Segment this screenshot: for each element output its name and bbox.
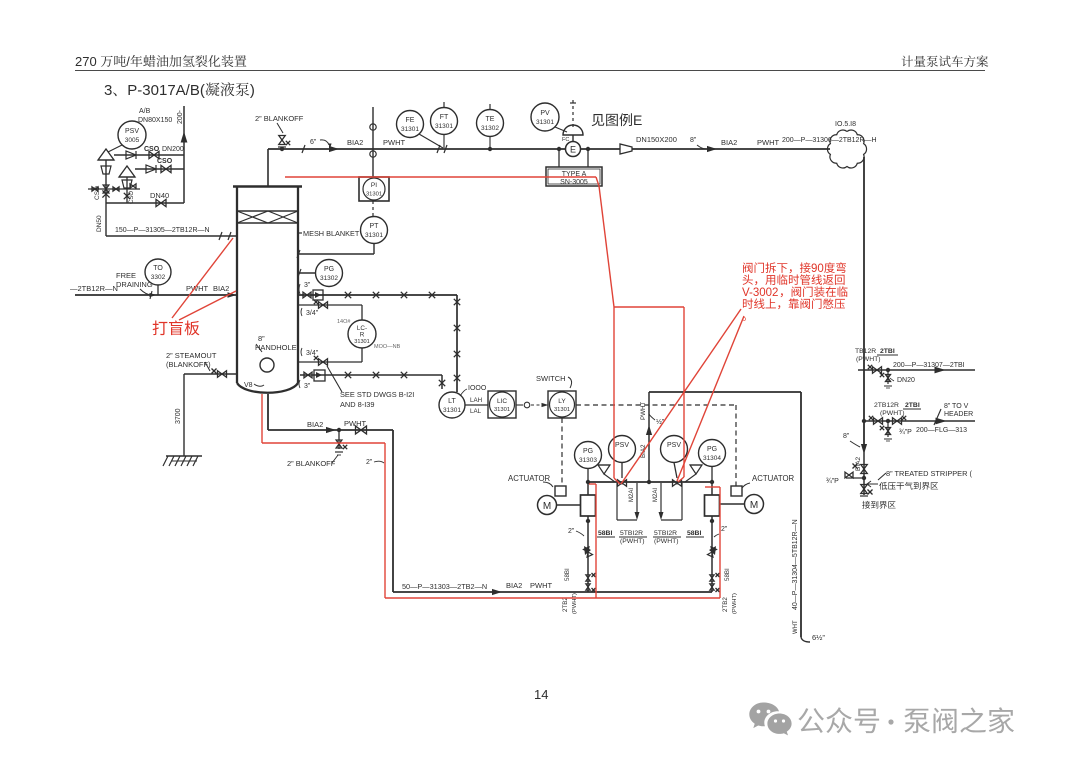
svg-text:31301: 31301	[443, 407, 461, 414]
svg-text:TE: TE	[486, 116, 495, 123]
svg-text:M2AI: M2AI	[629, 488, 635, 502]
instrument PI 31301 box	[359, 177, 389, 201]
instrument LIC 31301 shared display	[488, 391, 516, 418]
relief tails M2AI right	[660, 483, 662, 512]
svg-text:TB12R: TB12R	[855, 348, 876, 355]
tick 6in	[302, 145, 305, 153]
svg-text:PWHT: PWHT	[530, 581, 552, 590]
svg-text:PV: PV	[540, 110, 550, 117]
control valve PV-31301 body	[572, 100, 574, 128]
grade ground symbol	[166, 455, 202, 457]
pipe suction drop	[392, 430, 394, 592]
pipe DN40 bottom header	[106, 202, 184, 204]
battery limit valve 1	[863, 449, 865, 495]
svg-text:2TB2: 2TB2	[562, 597, 569, 612]
relief tails M2AI left	[616, 483, 618, 520]
svg-text:PG: PG	[324, 266, 334, 273]
flow arrow main	[329, 146, 339, 152]
valve CSO 2	[161, 165, 171, 172]
svg-text:31301: 31301	[536, 119, 554, 126]
X valves lower	[345, 372, 351, 378]
angle valve cluster 3in	[303, 292, 311, 298]
vent funnel A	[598, 465, 610, 474]
svg-text:31301: 31301	[554, 407, 570, 413]
section title 3 P-3017A/B condensate pump	[104, 82, 255, 99]
vessel top cap	[233, 185, 302, 188]
PSV A inlet valve	[618, 480, 627, 486]
drain valves B	[710, 575, 715, 581]
svg-text:2”: 2”	[366, 459, 373, 466]
svg-text:DN40: DN40	[150, 191, 169, 200]
svg-text:MESH BLANKET: MESH BLANKET	[303, 229, 360, 238]
svg-text:3700: 3700	[175, 408, 182, 424]
instrument PG 31304	[699, 440, 726, 467]
svg-text:2TBI: 2TBI	[880, 348, 895, 355]
svg-text:(PWHT): (PWHT)	[732, 593, 738, 614]
svg-text:A/B: A/B	[139, 108, 151, 115]
svg-text:PWHT: PWHT	[757, 138, 779, 147]
svg-text:R: R	[360, 332, 365, 339]
svg-text:6½”: 6½”	[812, 633, 825, 642]
signal LIC to LY	[516, 404, 523, 406]
leader free draining arrow	[140, 289, 152, 295]
red note da mang ban blind plate	[153, 320, 200, 335]
instrument LT 31301	[439, 392, 465, 418]
svg-text:BIA2: BIA2	[855, 457, 862, 471]
orifice tap vertical	[372, 107, 374, 177]
red leader to 150-P nozzle	[172, 238, 233, 318]
svg-text:31301: 31301	[354, 339, 370, 345]
svg-text:IOOO: IOOO	[468, 385, 487, 392]
battery limit valve 2	[861, 485, 867, 494]
red branch at pump A	[589, 483, 596, 485]
red leader to free draining nozzle	[179, 291, 236, 320]
svg-text:(PWHT): (PWHT)	[620, 538, 645, 545]
red leader note to PSV A valve	[621, 309, 741, 484]
small valve a	[92, 187, 98, 191]
inline component with arrow	[304, 372, 312, 378]
branch 200-P-31307 y370	[858, 369, 975, 371]
svg-text:LAL: LAL	[470, 408, 482, 415]
svg-text:BIA2: BIA2	[506, 581, 522, 590]
svg-text:58BI: 58BI	[687, 530, 701, 537]
svg-text:LIC: LIC	[497, 398, 507, 405]
svg-text:8”: 8”	[843, 433, 850, 440]
svg-text:DRAINING: DRAINING	[116, 280, 153, 289]
pipe level tap lower y375	[300, 374, 442, 376]
pump discharge manifold	[588, 481, 712, 483]
svg-text:—2TB12R—N: —2TB12R—N	[70, 284, 118, 293]
svg-text:E: E	[633, 112, 642, 128]
instrument PT 31301	[361, 217, 388, 244]
svg-text:P-3017A/B(: P-3017A/B(	[127, 82, 205, 99]
svg-text:PSV: PSV	[667, 442, 681, 449]
instrument LY 31301	[548, 391, 576, 418]
instrument PSV A	[609, 436, 636, 463]
pump A body	[581, 495, 596, 516]
svg-text:): )	[250, 82, 255, 99]
valve DN40	[156, 199, 166, 206]
svg-text:6”: 6”	[310, 139, 317, 146]
lower tap corner to LT	[441, 375, 443, 389]
tick marks near column nozzle	[219, 232, 222, 240]
svg-text:3: 3	[104, 82, 112, 99]
positioner box TYPE A SN-3005	[558, 149, 560, 167]
label low pressure dry gas to battery limit	[867, 481, 878, 487]
svg-text:5TBI2R: 5TBI2R	[654, 530, 677, 537]
tap 3/4in upper to LC	[298, 304, 362, 306]
pipe RV1 inlet drop	[105, 160, 107, 236]
svg-text:LY: LY	[558, 398, 566, 405]
svg-text:(PWHT): (PWHT)	[856, 356, 881, 363]
svg-text:LT: LT	[448, 398, 456, 405]
drain manifold small line	[88, 188, 140, 190]
pump B body	[705, 495, 720, 516]
svg-text:M: M	[543, 501, 551, 512]
label treated stripper	[878, 473, 886, 480]
svg-text:8” TREATED STRIPPER (: 8” TREATED STRIPPER (	[886, 469, 973, 478]
pipe level tap upper y295	[298, 294, 457, 296]
signal LY down to pump A actuator dashed	[561, 418, 563, 486]
angle body RV2 inlet	[122, 180, 132, 188]
svg-text:WHT: WHT	[793, 620, 799, 634]
svg-text:¾”P: ¾”P	[826, 478, 839, 485]
reducer DN150X200	[620, 144, 632, 154]
svg-text:40—P—31304—5TB12R—N: 40—P—31304—5TB12R—N	[792, 519, 799, 610]
red drop to PSV B valve	[683, 307, 685, 477]
pipe feed 2TB12R-N free draining	[75, 294, 237, 296]
spectacle blind on RV1 outlet	[126, 151, 136, 159]
svg-text:FC: FC	[562, 137, 569, 143]
vessel column shell	[236, 186, 238, 383]
svg-text:200—P—31307—2TBI: 200—P—31307—2TBI	[893, 362, 965, 369]
instrument FE 31301	[397, 111, 424, 138]
pipe RV1 outlet to riser CSO DN200	[114, 154, 184, 156]
instrument PSV B	[661, 436, 688, 463]
svg-text:DN20: DN20	[897, 377, 915, 384]
instrument TO 3302	[145, 259, 171, 285]
svg-text:31304: 31304	[703, 455, 721, 462]
discharge valve B	[707, 547, 716, 557]
pipe column bottom outlet	[267, 394, 269, 430]
svg-text:BIA2: BIA2	[721, 138, 737, 147]
svg-text:M: M	[750, 500, 758, 511]
discharge valve A	[583, 547, 592, 557]
svg-text:58BI: 58BI	[724, 568, 731, 581]
pump A discharge	[587, 516, 589, 592]
handhole 8in	[260, 358, 274, 372]
svg-text:TO: TO	[153, 265, 163, 272]
svg-text:200—P—31306—2TB12R—H: 200—P—31306—2TB12R—H	[782, 137, 877, 144]
svg-text:DN50: DN50	[96, 215, 103, 232]
pipe riser 200- to PSV3005 header	[183, 106, 185, 203]
upper tap corner down to LT	[456, 295, 458, 392]
small valve c	[130, 184, 136, 188]
svg-text:SEE STD DWGS B-I2I: SEE STD DWGS B-I2I	[340, 390, 414, 399]
pipe relief header top	[649, 391, 801, 393]
pipe right vertical main	[863, 157, 865, 449]
angle body on inlet	[101, 166, 111, 174]
branch 200-FLG y421	[862, 419, 866, 423]
red temp loop column bottom	[261, 394, 263, 443]
blankoff drop 2in	[338, 430, 340, 449]
svg-text:2TB12R: 2TB12R	[874, 402, 899, 409]
svg-text:31301: 31301	[494, 407, 510, 413]
grade drop leg	[183, 374, 185, 456]
svg-text:50—P—31303—2TB2—N: 50—P—31303—2TB2—N	[402, 582, 487, 591]
svg-text:3005: 3005	[125, 137, 140, 144]
instrument PG 31303	[575, 442, 602, 469]
svg-text:(BLANKOFF): (BLANKOFF)	[166, 360, 211, 369]
svg-text:BIA2: BIA2	[213, 284, 229, 293]
leader PSV to relief valve	[108, 145, 122, 152]
header rule	[75, 70, 985, 72]
watermark wechat icon	[749, 703, 791, 736]
relief valve RV2	[119, 166, 135, 177]
svg-text:31302: 31302	[481, 125, 499, 132]
svg-text:SN-3005: SN-3005	[560, 179, 588, 186]
svg-text:PG: PG	[583, 448, 593, 455]
cross valve CSO on inlet	[102, 190, 109, 197]
svg-text:PWHT: PWHT	[640, 402, 647, 420]
pump B suction stub	[711, 482, 713, 495]
svg-text:2” BLANKOFF: 2” BLANKOFF	[255, 114, 304, 123]
label legend E	[592, 112, 643, 128]
actuator A box	[555, 486, 566, 496]
RV2 inlet drop	[126, 177, 128, 203]
svg-text:SWITCH: SWITCH	[536, 374, 566, 383]
svg-text:3302: 3302	[151, 274, 166, 281]
tap 3/4in lower from LC	[361, 348, 363, 362]
svg-text:ACTUATOR: ACTUATOR	[752, 474, 795, 483]
svg-text:14O#: 14O#	[337, 319, 351, 325]
pump B discharge	[711, 516, 713, 592]
svg-text:E: E	[570, 145, 576, 155]
drain DN20	[887, 370, 889, 384]
svg-text:DN200: DN200	[162, 146, 184, 153]
svg-text:AND 8-I39: AND 8-I39	[340, 400, 375, 409]
steamout valve	[218, 371, 227, 377]
vent funnel B	[690, 465, 702, 474]
svg-text:/: /	[126, 54, 130, 69]
svg-text:3/4”: 3/4”	[306, 350, 319, 357]
svg-text:31303: 31303	[579, 457, 597, 464]
relief valve RV1	[98, 149, 114, 160]
svg-text:CSO: CSO	[157, 158, 173, 165]
signal PI to PT	[372, 201, 374, 217]
small valve b	[113, 187, 119, 191]
svg-text:V-3002: V-3002	[742, 287, 778, 299]
instrument PSV 3005	[118, 121, 146, 149]
svg-text:HEADER: HEADER	[944, 411, 973, 418]
svg-text:DN150X200: DN150X200	[636, 135, 677, 144]
svg-text:200—FLG—313: 200—FLG—313	[916, 427, 967, 434]
svg-text:(PWHT): (PWHT)	[654, 538, 679, 545]
svg-text:58BI: 58BI	[564, 568, 571, 581]
instrument FT 31301	[431, 108, 458, 135]
svg-text:2” BLANKOFF: 2” BLANKOFF	[287, 459, 336, 468]
instrument TE 31302	[477, 110, 504, 137]
motor B	[745, 495, 764, 514]
red annotation text block	[743, 262, 846, 275]
svg-text:DN80X150: DN80X150	[138, 117, 172, 124]
svg-text:MOO—NB: MOO—NB	[374, 344, 401, 350]
vessel top nozzle riser	[267, 149, 269, 186]
svg-text:FT: FT	[440, 114, 449, 121]
drain valves A	[586, 575, 591, 581]
svg-text:¾”P: ¾”P	[899, 429, 912, 436]
svg-text:5TBI2R: 5TBI2R	[620, 530, 643, 537]
svg-text:FREE: FREE	[116, 271, 136, 280]
svg-text:2”: 2”	[568, 528, 575, 535]
svg-text:8”: 8”	[258, 334, 265, 343]
svg-text:270: 270	[75, 54, 97, 69]
valve CSO DN200	[149, 151, 159, 158]
svg-text:31301: 31301	[435, 123, 453, 130]
svg-text:BIA2: BIA2	[347, 138, 363, 147]
svg-text:V8: V8	[244, 382, 253, 389]
gauge LC-R 31301	[348, 320, 376, 348]
svg-text:LAH: LAH	[470, 397, 482, 404]
flow arrow up on riser	[181, 132, 188, 143]
svg-text:(PWHT): (PWHT)	[572, 593, 578, 614]
svg-text:3/4”: 3/4”	[306, 310, 319, 317]
svg-text:31302: 31302	[320, 275, 338, 282]
svg-text:2” STEAMOUT: 2” STEAMOUT	[166, 351, 217, 360]
motor A	[538, 496, 557, 515]
PT tap to column	[373, 244, 375, 255]
pipe relief riser with arrow	[648, 392, 650, 482]
svg-text:14: 14	[534, 687, 548, 702]
label to battery limit	[862, 501, 895, 509]
svg-text:31301: 31301	[366, 192, 382, 198]
pipe bottom suction header	[393, 591, 712, 593]
svg-text:PSV: PSV	[615, 442, 629, 449]
red jumper horizontal	[614, 306, 684, 308]
svg-text:PSV: PSV	[125, 128, 139, 135]
svg-text:31301: 31301	[401, 126, 419, 133]
header right title metering pump scheme	[902, 55, 989, 67]
svg-text:2TBI: 2TBI	[905, 402, 920, 409]
svg-text:M2AI: M2AI	[653, 488, 659, 502]
leader SEE STD DWGS	[327, 366, 342, 392]
PSV B inlet valve	[673, 480, 682, 486]
pipe 150-P-31305 to column	[106, 235, 237, 237]
svg-text:PT: PT	[370, 223, 380, 230]
svg-text:CSO: CSO	[129, 191, 135, 204]
svg-text:FE: FE	[406, 117, 415, 124]
instrument PV 31301	[531, 103, 559, 131]
svg-text:CSO: CSO	[144, 146, 160, 153]
svg-text:31301: 31301	[365, 232, 383, 239]
svg-text:150—P—31305—2TB12R—N: 150—P—31305—2TB12R—N	[115, 227, 210, 234]
cross valve RV2 inlet	[124, 193, 130, 199]
svg-text:58BI: 58BI	[598, 530, 612, 537]
pipe discharge down 40-P-31304	[800, 392, 802, 637]
header left title 270wt/y unit	[75, 54, 246, 69]
actuator B box	[731, 486, 742, 496]
svg-text:BIA2: BIA2	[307, 420, 323, 429]
svg-text:2TB2: 2TB2	[722, 597, 729, 612]
orifice tap tee	[437, 145, 440, 153]
red leader note to PSV B valve	[677, 316, 744, 481]
branch 3/4P left	[862, 476, 866, 480]
svg-text:PWHT: PWHT	[383, 138, 405, 147]
svg-text:90: 90	[811, 263, 824, 275]
svg-text:PI: PI	[371, 182, 377, 189]
drain 3/4P	[887, 421, 889, 437]
svg-text:(PWHT): (PWHT)	[880, 410, 905, 417]
X valves upper	[345, 292, 351, 298]
instrument PG 31302	[316, 260, 343, 287]
pipe 2in steamout	[184, 373, 237, 375]
svg-text:3”: 3”	[304, 383, 311, 390]
watermark text pump valve home	[798, 707, 879, 733]
signal LY to pump B actuator dashed	[576, 404, 736, 406]
red drop to PSV A valve	[613, 307, 615, 478]
svg-text:PG: PG	[707, 446, 717, 453]
pump A suction stub	[587, 482, 589, 495]
red temp line from column top to TYPE A	[285, 176, 596, 178]
spectacle blind on RV2 outlet	[146, 165, 156, 173]
svg-text:8”: 8”	[690, 137, 697, 144]
mesh blanket demister	[237, 210, 298, 212]
red diagonal TYPE A to psv area	[599, 186, 614, 307]
svg-text:2”: 2”	[721, 526, 728, 533]
junction dots on manifold	[586, 480, 590, 484]
svg-text:200-: 200-	[177, 109, 184, 124]
signal LT to LIC labels LAH LAL	[465, 404, 488, 406]
svg-text:8” TO V: 8” TO V	[944, 403, 969, 410]
svg-text:IO.5.I8: IO.5.I8	[835, 121, 856, 128]
svg-text:3”: 3”	[304, 282, 311, 289]
flow arrow right section	[707, 146, 717, 152]
pipe RV2 outlet CSO	[135, 168, 184, 170]
pipe overhead main line	[268, 148, 566, 150]
